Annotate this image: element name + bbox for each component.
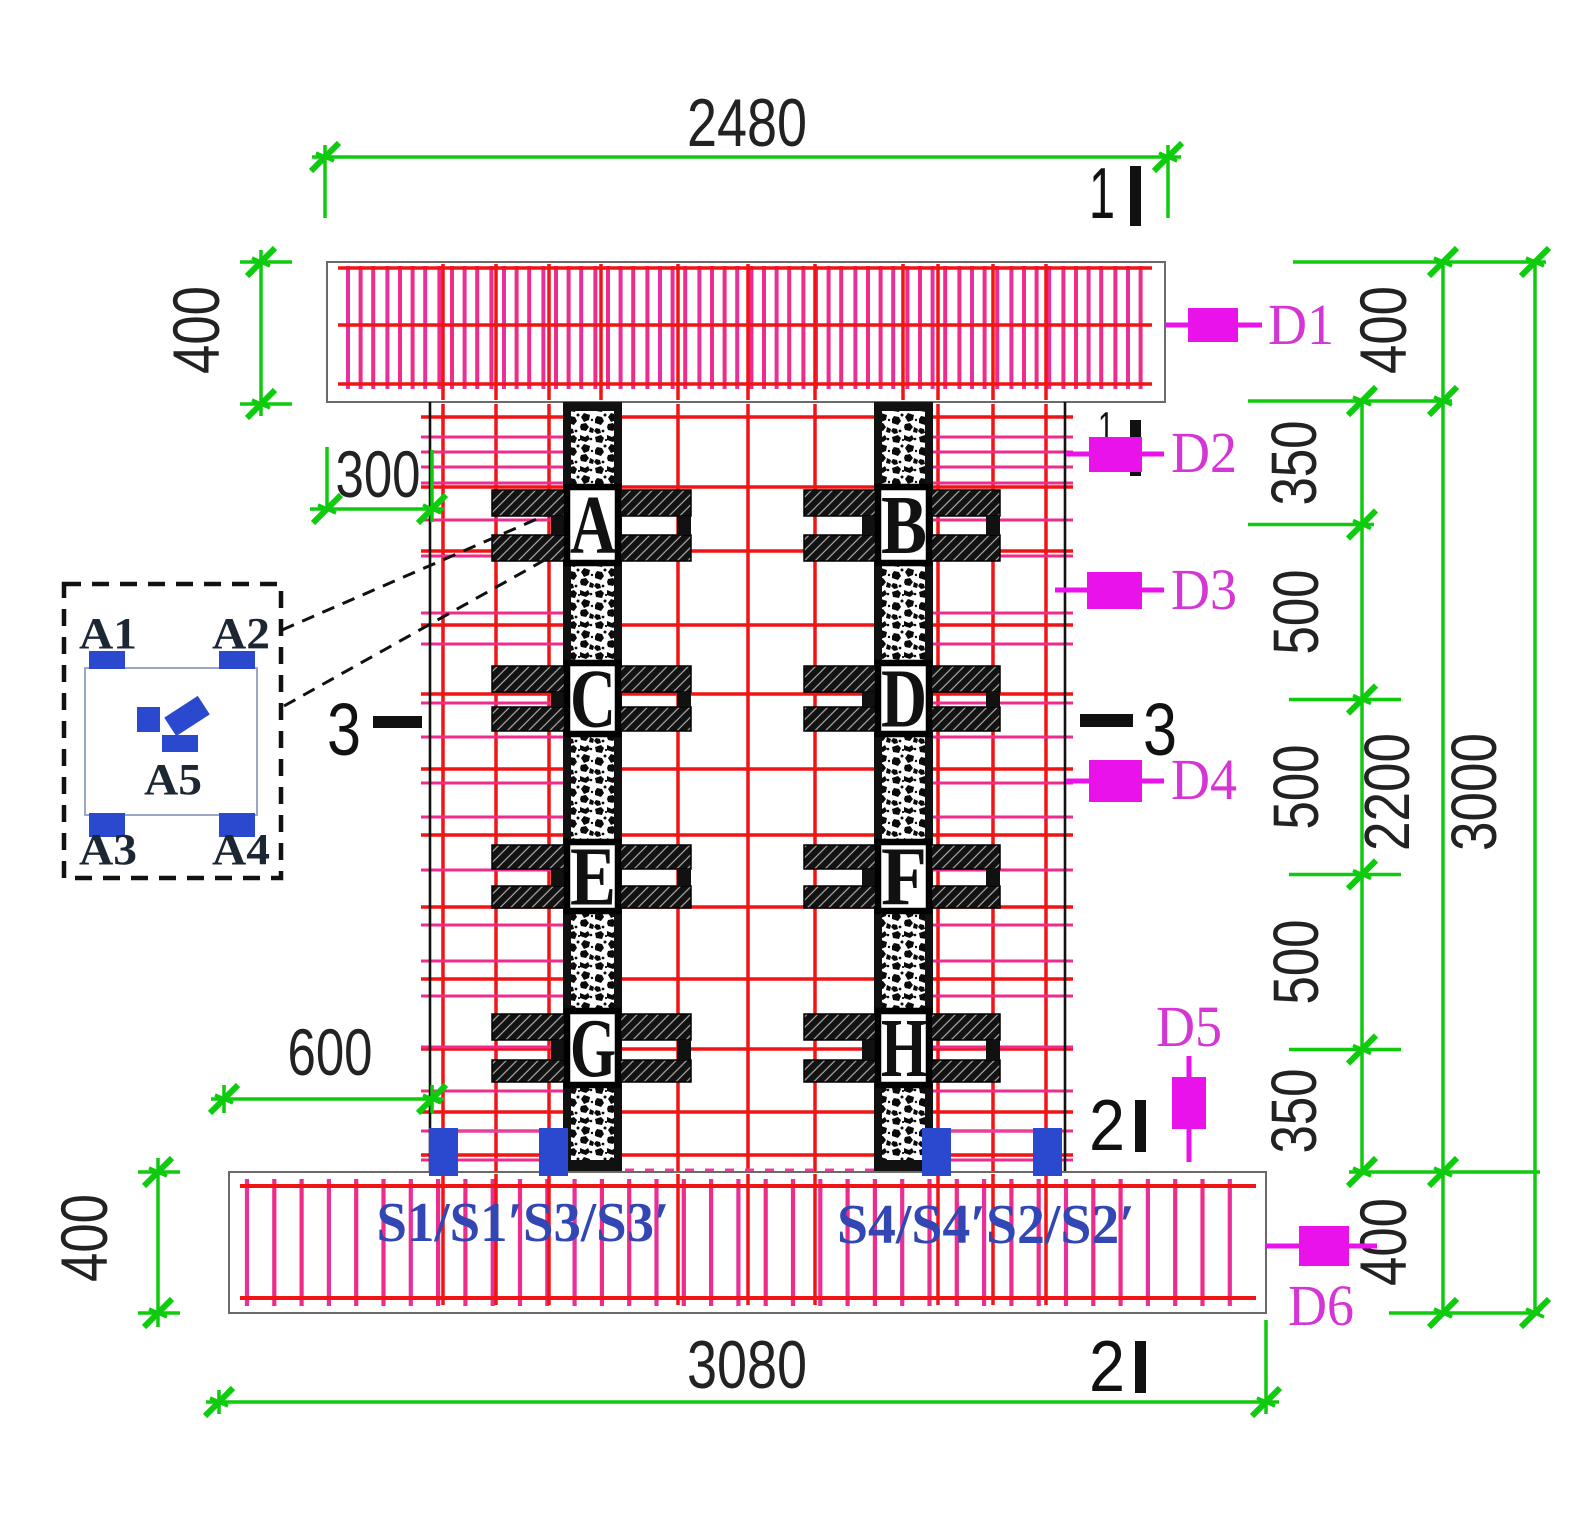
svg-text:350: 350 [1258,421,1330,506]
svg-text:400: 400 [1346,1198,1420,1286]
steel plate set at level B [804,490,1000,561]
wall horizontal rebar pink - right strip [929,437,1073,1160]
svg-text:G: G [570,1002,616,1095]
svg-text:3000: 3000 [1438,733,1510,851]
svg-text:C: C [570,653,616,746]
dimension 300 (edge distance) [310,437,446,523]
marker box A [567,479,618,572]
transducer D2 [1066,420,1237,485]
marker box C [567,653,618,746]
svg-text:A5: A5 [144,755,202,804]
label A4 [212,825,270,874]
svg-text:E: E [570,831,616,924]
steel plate set at level D [804,666,1000,731]
section marker 3-3 right [1080,688,1177,771]
top beam stirrup bars [348,266,1141,389]
foundation beam outline [229,1172,1266,1313]
steel plate set at level F [804,845,1000,908]
detail inner plan rectangle [85,668,257,815]
wall horizontal rebar pink - left strip [421,437,566,1160]
svg-text:B: B [881,479,927,572]
dimension 3080 (foundation beam width) [205,1320,1280,1416]
transducer D5 [1156,994,1222,1162]
steel plate set at level H [804,1014,1000,1082]
svg-text:A3: A3 [79,825,137,874]
strain gauge S4 [922,1128,951,1176]
marker box D [878,653,929,746]
steel plate set at level C [492,666,691,731]
label A2 [212,609,270,658]
svg-text:400: 400 [47,1194,121,1282]
transducer D6 [1266,1226,1377,1338]
strain gauge S2 [1033,1128,1062,1176]
svg-text:A: A [570,479,616,572]
accelerometer icon A5 [137,696,210,752]
wall horizontal rebar (red) [421,417,1073,1155]
detail leader line upper [282,512,553,630]
svg-text:500: 500 [1260,745,1332,830]
svg-text:500: 500 [1260,920,1332,1005]
svg-text:S1/S1′S3/S3′: S1/S1′S3/S3′ [377,1192,670,1254]
section marker 2-2 upper [1089,1086,1146,1166]
svg-text:F: F [881,831,927,924]
section marker 1-1 lower (behind D2) [1098,403,1141,476]
svg-text:H: H [881,1002,927,1095]
accelerometer tab A2 [219,651,255,669]
top loading beam outline [327,262,1165,402]
steel plate set at level E [492,845,691,908]
transducer D3 [1055,557,1237,622]
svg-text:400: 400 [1346,286,1420,374]
svg-text:D3: D3 [1171,557,1237,622]
section marker 1-1 top [1089,154,1141,234]
svg-text:350: 350 [1258,1069,1330,1154]
marker box H [878,1002,929,1095]
svg-text:D5: D5 [1156,994,1222,1059]
accelerometer tab A1 [89,651,125,669]
dimension chain 350/500/500/500/350 (plate levels) [1248,387,1452,1186]
wall vertical rebar [443,404,1046,1171]
svg-text:2: 2 [1089,1086,1125,1166]
accelerometer tab A4 [219,813,255,837]
label A3 [79,825,137,874]
svg-text:600: 600 [288,1015,373,1089]
svg-text:D4: D4 [1171,747,1237,812]
svg-text:A4: A4 [212,825,270,874]
transducer D4 [1066,747,1237,812]
marker box E [567,831,618,924]
svg-text:300: 300 [336,437,421,511]
svg-text:2: 2 [1089,1327,1125,1407]
strain gauge S1 [429,1128,458,1176]
svg-text:A2: A2 [212,609,270,658]
concrete column 1 (speckled) [563,402,622,1172]
foundation beam stirrup bars [247,1179,1230,1306]
svg-text:400: 400 [159,286,233,374]
svg-text:3: 3 [327,688,361,771]
svg-text:D6: D6 [1288,1273,1354,1338]
detail leader line lower [284,557,550,706]
marker box G [567,1002,618,1095]
dimension 3000 (total height) [1293,248,1549,1327]
dimension 400 (top beam height) [159,248,292,418]
section marker 2-2 lower [1089,1327,1146,1407]
top beam longitudinal bars [338,268,1152,384]
foundation beam vertical bar continuations [443,1174,1046,1305]
gauge link line S4-S2 [950,1129,1033,1132]
svg-text:D1: D1 [1268,292,1334,357]
marker box B [878,479,929,572]
concrete column 2 (speckled) [874,402,933,1172]
svg-text:3080: 3080 [687,1327,807,1403]
svg-text:D: D [881,653,927,746]
section marker 3-3 left [327,688,422,771]
accelerometer tab A3 [89,813,125,837]
label S4/S4'S2/S2' [837,1194,1135,1256]
strain gauge S3 [539,1128,568,1176]
svg-text:A1: A1 [79,609,137,658]
transducer D1 [1165,292,1334,357]
wall right edge [1064,402,1067,1172]
svg-text:S4/S4′S2/S2′: S4/S4′S2/S2′ [837,1194,1135,1256]
gauge link line S1-S3 [458,1129,539,1132]
wall left edge [429,402,432,1172]
svg-text:2480: 2480 [687,85,807,161]
svg-text:2200: 2200 [1351,733,1423,851]
foundation beam longitudinal bars [240,1186,1256,1298]
steel plate set at level G [492,1014,691,1082]
marker box F [878,831,929,924]
steel plate set at level A [492,490,691,561]
detail box dashed border [64,584,281,878]
svg-text:500: 500 [1260,570,1332,655]
label S1/S1'S3/S3' [377,1192,670,1254]
svg-text:1: 1 [1089,154,1115,234]
dimension 2480 (top beam width) [311,85,1182,218]
dimension 400 (foundation beam height) [47,1158,180,1327]
svg-text:D2: D2 [1171,420,1237,485]
wall base construction joint (pink dashes) [565,1169,935,1172]
label A1 [79,609,137,658]
dimension 600 (edge distance bottom) [210,1015,446,1113]
top beam vertical bar continuations [443,264,1046,400]
dimension 400/2200/400 (overall heights) [1346,248,1457,1327]
label A5 [144,755,202,804]
